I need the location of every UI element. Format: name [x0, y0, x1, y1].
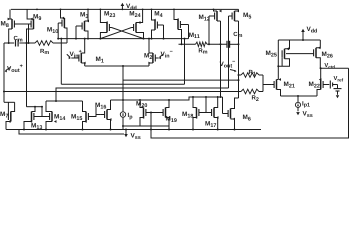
transistor M26 — [314, 40, 321, 68]
label Vin- — [161, 49, 173, 59]
wire M19-M20 source wire — [123, 112, 169, 127]
transistor M11 — [174, 9, 189, 44]
label Cm (right) — [233, 31, 242, 39]
transistor M21 — [272, 78, 281, 96]
wire Vss secondary line — [19, 130, 124, 135]
capacitor Cm (right) — [227, 41, 230, 48]
wire Vss bus — [6, 129, 261, 131]
transistor M13 — [24, 107, 38, 130]
current source Ip — [120, 102, 125, 130]
label Rm (right) — [198, 47, 207, 55]
wire M7 drain to Vout+ rail — [4, 101, 15, 103]
label M26 — [322, 51, 333, 59]
transistor M10 — [58, 9, 67, 43]
wire M3 gate-drain diode — [75, 26, 89, 40]
svg-text:Vctrl: Vctrl — [324, 63, 335, 69]
label M25 — [266, 50, 277, 58]
label M3 — [80, 12, 88, 20]
transistor M23 — [100, 9, 111, 38]
resistor Rm (right) — [196, 42, 208, 47]
wire M13-M14 gate tie — [38, 106, 47, 117]
transistor M8 — [8, 9, 29, 43]
label M10 — [47, 27, 58, 35]
wire Vout+ rail — [3, 43, 5, 102]
wire M17 source dot — [217, 129, 219, 131]
wire tail vertical to Ip — [122, 66, 124, 102]
label Ip — [128, 112, 134, 120]
transistor M9 — [27, 9, 34, 43]
wire M11 gate vertical — [188, 25, 190, 39]
wire M12 gate vertical — [208, 16, 210, 45]
node Vout- arrow — [230, 70, 237, 73]
transistor M20 — [140, 100, 151, 126]
wire cross-coupling M23-M24 — [99, 28, 144, 40]
label Vdd (main) — [126, 3, 137, 11]
wire M10 gate vertical — [57, 23, 59, 40]
transistor M6 — [223, 98, 239, 130]
transistor M18 — [193, 97, 206, 130]
wire compensation node left (y=43) — [4, 42, 67, 44]
wire R1-R2 output — [263, 75, 272, 92]
wire M17-M18 gate tie — [192, 97, 212, 131]
wire M25 drain / M21 drain vertical — [277, 40, 279, 80]
label M24 — [129, 10, 140, 18]
label M18 — [182, 111, 193, 119]
label M22 — [309, 81, 320, 89]
transistor M3 — [76, 9, 89, 38]
capacitor Cm (left) — [16, 40, 19, 47]
label M7 — [0, 111, 8, 119]
transistor M14 — [46, 101, 57, 130]
wire compensation node right (y=44.3) — [179, 43, 240, 45]
label M8 — [1, 21, 9, 29]
wire M9 drain long vertical — [26, 43, 28, 107]
power Vss arrow (main) — [124, 129, 128, 138]
transistor M5 — [229, 9, 240, 21]
wire Vctrl — [320, 67, 349, 69]
power Vss arrow (Ip1) — [296, 112, 300, 115]
wire second stage drive line — [110, 96, 223, 131]
svg-text:Vref: Vref — [334, 76, 344, 82]
transistor M15 — [83, 101, 93, 130]
label M13 — [31, 123, 42, 131]
resistor Rm (left) — [35, 41, 53, 46]
transistor M2 — [148, 39, 158, 66]
node Vout+ arrow — [5, 68, 10, 73]
transistor M7 — [6, 102, 15, 129]
label Vout+ — [7, 64, 23, 74]
node Vin- arrow — [159, 54, 163, 59]
label M23 — [104, 10, 115, 18]
label M15 — [71, 114, 82, 122]
transistor M12 — [209, 9, 222, 21]
label Vctrl — [324, 63, 335, 69]
transistor M16 — [100, 100, 111, 130]
wire M25-M26 gate tie — [286, 53, 314, 55]
label Vin+ — [70, 49, 82, 59]
wire input pair tail — [85, 65, 149, 67]
wire M6 gate vertical — [223, 97, 236, 131]
label M6 — [243, 114, 251, 122]
resistor R2 — [241, 89, 263, 94]
wire Vdd rail (main amplifier) — [11, 9, 239, 11]
label Ip1 — [302, 100, 310, 108]
label R2 — [252, 95, 259, 103]
voltage source Vref — [330, 81, 341, 99]
wire M5 gate vertical (to rail B) — [228, 16, 230, 88]
transistor M19 — [151, 100, 170, 126]
wire rail D (Vout- sense) — [123, 79, 240, 81]
label M2 — [144, 53, 152, 61]
transistor M22 — [317, 68, 329, 96]
transistor M24 — [132, 9, 144, 38]
wire M4 gate-drain diode — [151, 25, 165, 40]
transistor M17 — [212, 97, 219, 130]
label M4 — [154, 11, 162, 19]
wire rail B — [56, 88, 229, 101]
wire Vdd rail (CMFB) — [278, 39, 320, 41]
wire M8-M9 gate bus — [8, 24, 30, 44]
label M12 — [199, 14, 210, 22]
label Vdd (CMFB) — [307, 26, 318, 34]
wire M12 drain vertical — [220, 21, 222, 98]
label M17 — [205, 121, 216, 129]
label Cm (left) — [14, 35, 23, 43]
power Vdd arrow (CMFB) — [301, 29, 305, 40]
wire rail C (Vout+ sense to R2) — [4, 91, 241, 93]
wire node A to rail A vertical — [60, 38, 62, 85]
label Vss (Ip1) — [303, 111, 313, 119]
wire Vctrl return line — [150, 68, 349, 138]
wire node A (y=38.6) — [58, 38, 188, 40]
label M19 — [166, 116, 177, 124]
label Vout- — [220, 59, 236, 69]
label M20 — [136, 101, 147, 109]
current source Ip1 — [295, 96, 300, 111]
label M11 — [189, 32, 200, 40]
label Vss (main) — [131, 133, 141, 141]
resistor R1 — [239, 73, 264, 78]
label R1 — [249, 69, 256, 77]
label M1 — [96, 56, 104, 64]
power Vdd arrow (main) — [121, 3, 125, 10]
label M21 — [284, 81, 295, 89]
transistor M25 — [278, 40, 289, 66]
wire M13 drain node — [23, 106, 42, 131]
wire CMFB tail — [281, 95, 318, 97]
wire M15-M16 gate tie — [82, 107, 101, 131]
wire M19 source to bus — [168, 126, 170, 131]
label M16 — [95, 102, 106, 110]
label M5 — [243, 12, 251, 20]
wire Vout- rail — [238, 21, 240, 98]
label M14 — [54, 114, 65, 122]
transistor M1 — [71, 39, 85, 66]
transistor M4 — [152, 9, 164, 38]
node Vin+ arrow — [67, 54, 71, 59]
label Vref — [334, 76, 344, 82]
wire rail A right vertical — [184, 39, 186, 85]
label Rm (left) — [40, 48, 49, 56]
label M9 — [33, 14, 41, 22]
wire M14-M15 drain wire — [45, 100, 83, 131]
wire rail A (floating bias) — [61, 83, 184, 85]
